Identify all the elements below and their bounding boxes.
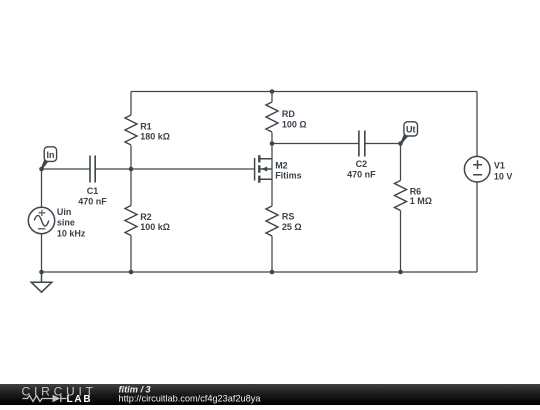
svg-text:1 MΩ: 1 MΩ: [410, 196, 432, 206]
svg-text:http://circuitlab.com/cf4g23af: http://circuitlab.com/cf4g23af2u8ya: [119, 393, 262, 403]
svg-text:C1: C1: [87, 186, 99, 196]
svg-text:M2: M2: [275, 160, 288, 170]
svg-text:10 V: 10 V: [494, 171, 513, 181]
svg-text:R6: R6: [410, 186, 422, 196]
svg-text:In: In: [47, 150, 55, 160]
svg-text:10 kHz: 10 kHz: [57, 228, 86, 238]
svg-text:180 kΩ: 180 kΩ: [140, 132, 170, 142]
svg-text:RS: RS: [282, 211, 295, 221]
svg-text:Uin: Uin: [57, 207, 72, 217]
svg-text:R1: R1: [140, 121, 152, 131]
svg-text:LAB: LAB: [67, 394, 93, 405]
svg-text:Ut: Ut: [406, 125, 416, 135]
svg-text:470 nF: 470 nF: [78, 196, 107, 206]
svg-text:sine: sine: [57, 217, 75, 227]
svg-text:100 kΩ: 100 kΩ: [140, 222, 170, 232]
svg-text:R2: R2: [140, 212, 152, 222]
svg-text:100 Ω: 100 Ω: [282, 120, 307, 130]
svg-text:C2: C2: [356, 159, 368, 169]
svg-text:RD: RD: [282, 109, 295, 119]
svg-text:V1: V1: [494, 160, 505, 170]
svg-text:25 Ω: 25 Ω: [282, 222, 302, 232]
svg-text:470 nF: 470 nF: [347, 170, 376, 180]
svg-text:Fitims: Fitims: [275, 171, 302, 181]
